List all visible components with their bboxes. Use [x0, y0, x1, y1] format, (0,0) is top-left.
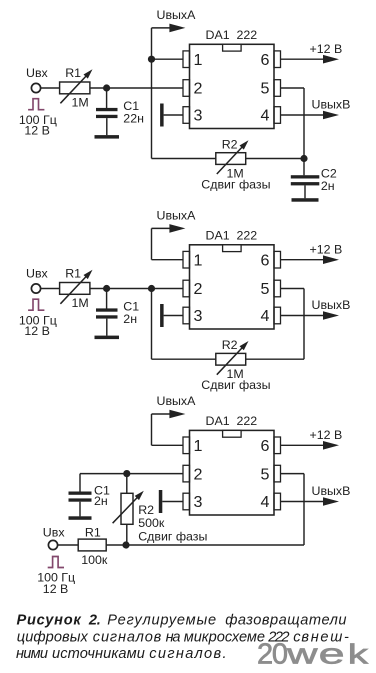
- input terminal circle (circuit 1): [31, 83, 40, 92]
- wire R2 row left segment (circuit 1): [152, 158, 216, 160]
- label +12 V (circuit 2): [310, 242, 343, 256]
- U2 pin 3 box: [183, 307, 190, 324]
- svg-text:+12 В: +12 В: [310, 242, 343, 256]
- wire pin 4 to UvyxB arrow (circuit 3): [281, 497, 340, 506]
- label 12 V (circuit 2): [24, 324, 50, 338]
- svg-text:сигналов.: сигналов.: [149, 646, 226, 662]
- resistor R2 designator (circuit 1): [222, 137, 238, 151]
- label Sdvig fazy (circuit 2): [201, 378, 270, 392]
- ground under C1 (circuit 3): [69, 516, 92, 520]
- resistor R2 variable arrow (circuit 3): [113, 491, 144, 523]
- svg-text:w: w: [286, 638, 319, 670]
- U1 pin 3 number: [194, 107, 203, 125]
- svg-text:2н: 2н: [94, 494, 108, 508]
- label UvyxB (circuit 1): [312, 98, 351, 112]
- op-amp U1 label DA1 222: [206, 28, 258, 42]
- svg-text:Uвх: Uвх: [26, 267, 49, 281]
- wire pin 6 to +12V arrow (circuit 3): [281, 441, 340, 450]
- capacitor C2 designator (circuit 1): [321, 167, 337, 181]
- resistor R1 value 1M (circuit 1): [72, 96, 89, 110]
- U3 pin 5 box: [274, 465, 281, 482]
- U1 pin 4 box: [274, 107, 281, 124]
- junction node R2/C2/pin5 (circuit 1): [300, 155, 307, 162]
- resistor R1 box (circuit 3): [78, 539, 106, 551]
- label 100 Hz (circuit 3): [37, 571, 75, 585]
- wire UvyxA vertical down to pin1 node (circuit 1): [151, 28, 153, 59]
- input terminal Uvx label (circuit 1): [26, 66, 49, 80]
- U3 pin 2 box: [183, 465, 190, 482]
- wire R1 to pin 2 (circuit 2): [90, 288, 183, 290]
- caption line 3 word istochnikami: [52, 646, 145, 662]
- U1 pin 6 box: [274, 51, 281, 68]
- svg-text:R1: R1: [85, 526, 101, 540]
- svg-text:5: 5: [261, 465, 270, 483]
- input terminal circle (circuit 3): [48, 540, 57, 549]
- svg-text:R1: R1: [65, 267, 81, 281]
- ground under C1 (circuit 2): [95, 336, 120, 340]
- wire pin5 vertical down (circuit 1): [303, 88, 305, 159]
- resistor R2 value 1M (circuit 1): [227, 166, 244, 180]
- svg-text:100к: 100к: [81, 553, 108, 567]
- U3 pin 4 box: [274, 493, 281, 510]
- input terminal Uvx label (circuit 2): [26, 267, 49, 281]
- watermark glyph e: [319, 638, 345, 670]
- wire corner down to C1 (circuit 3): [79, 474, 81, 492]
- svg-text:2: 2: [194, 80, 203, 98]
- svg-text:6: 6: [261, 437, 270, 455]
- capacitor C1 value 2n (circuit 3): [94, 494, 108, 508]
- capacitor C1 plates (circuit 3): [69, 492, 92, 502]
- resistor R2 bottom lead (circuit 3): [126, 524, 128, 545]
- svg-text:Сдвиг фазы: Сдвиг фазы: [138, 530, 207, 544]
- svg-text:UвыхA: UвыхA: [157, 8, 197, 22]
- U2 pin 2 number: [194, 280, 203, 298]
- U1 pin 5 number: [261, 80, 270, 98]
- resistor R1 designator (circuit 1): [65, 66, 81, 80]
- resistor R2 box (circuit 3): [121, 493, 133, 524]
- wire R1 to pin 2 (circuit 1): [90, 87, 183, 89]
- wire pin5 vertical down (circuit 2): [303, 289, 305, 360]
- caption line 2 number 222: [267, 629, 289, 645]
- svg-text:e: e: [319, 638, 345, 670]
- svg-text:+12 В: +12 В: [310, 42, 343, 56]
- capacitor C1 designator (circuit 2): [123, 300, 139, 314]
- U1 pin 2 number: [194, 80, 203, 98]
- capacitor C1 lead from node (circuit 1): [106, 88, 108, 108]
- watermark glyph k: [348, 638, 369, 669]
- svg-text:UвыхB: UвыхB: [312, 98, 351, 112]
- svg-text:микросхеме: микросхеме: [184, 629, 265, 645]
- svg-text:UвыхB: UвыхB: [312, 298, 351, 312]
- wire node to pin 1 (circuit 1): [152, 58, 184, 60]
- svg-text:2н: 2н: [123, 312, 137, 326]
- U3 pin 3 box: [183, 493, 190, 510]
- output UvyxA arrow (circuit 2): [152, 224, 186, 233]
- caption line 3 word nimi: [16, 646, 48, 662]
- svg-text:2: 2: [194, 280, 203, 298]
- wire input to R1 (circuit 2): [40, 288, 60, 290]
- svg-text:+12 В: +12 В: [310, 428, 343, 442]
- svg-text:на: на: [166, 629, 181, 645]
- svg-text:2: 2: [194, 465, 203, 483]
- wire C1 to ground (circuit 2): [106, 319, 108, 336]
- output UvyxA arrow (circuit 1): [152, 24, 186, 33]
- svg-text:2.: 2.: [88, 612, 101, 628]
- U2 pin 1 box: [183, 251, 190, 268]
- svg-text:5: 5: [261, 280, 270, 298]
- svg-text:6: 6: [261, 51, 270, 69]
- label 12 V (circuit 3): [43, 582, 69, 596]
- op-amp U2 label DA1 222: [206, 229, 258, 243]
- wire ground to pin 3 (circuit 2): [164, 315, 183, 317]
- wire C1 to ground (circuit 1): [106, 118, 108, 135]
- resistor R2 box (circuit 2): [216, 353, 246, 365]
- resistor R1 value 1M (circuit 2): [72, 296, 89, 310]
- svg-text:1: 1: [194, 51, 203, 69]
- svg-text:12 В: 12 В: [24, 324, 50, 338]
- U2 pin 3 number: [194, 307, 203, 325]
- output UvyxA arrow (circuit 3): [152, 410, 186, 419]
- signal source pulse symbol (circuit 2): [28, 299, 44, 310]
- ground under C2 (circuit 1): [292, 198, 319, 202]
- wire bottom row to pin5 net (circuit 3): [126, 544, 304, 546]
- svg-text:6: 6: [261, 251, 270, 269]
- capacitor C2 value 2n (circuit 1): [321, 179, 335, 193]
- ground bar at pin 3 (circuit 3): [159, 490, 163, 513]
- U3 pin 2 number: [194, 465, 203, 483]
- capacitor C2 plates (circuit 1): [291, 175, 320, 185]
- op-amp U2 DA1 222 body: [190, 245, 275, 329]
- wire C2 to ground (circuit 1): [304, 185, 306, 198]
- U2 pin 4 number: [261, 307, 270, 325]
- wire UvyxA vertical down to pin 1 (circuit 3): [151, 414, 153, 445]
- svg-text:Сдвиг фазы: Сдвиг фазы: [201, 177, 270, 191]
- U1 pin 1 box: [183, 51, 190, 68]
- svg-text:R1: R1: [65, 66, 81, 80]
- caption line 1 word Reguliruemye: [107, 612, 216, 628]
- label Sdvig fazy (circuit 3): [138, 530, 207, 544]
- svg-text:2н: 2н: [321, 179, 335, 193]
- svg-text:1: 1: [194, 437, 203, 455]
- op-amp U3 DA1 222 body: [190, 430, 275, 515]
- svg-text:UвыхA: UвыхA: [157, 394, 197, 408]
- svg-text:1M: 1M: [72, 96, 89, 110]
- U3 pin 5 number: [261, 465, 270, 483]
- caption line 1 word Risunok (bold italic): [17, 612, 82, 628]
- wire R2 to right node (circuit 1): [246, 158, 304, 160]
- svg-text:DA1 222: DA1 222: [206, 28, 258, 42]
- junction node pin1/UvyxA (circuit 1): [148, 56, 155, 63]
- svg-text:1: 1: [194, 251, 203, 269]
- svg-text:2: 2: [257, 638, 273, 670]
- label UvyxB (circuit 3): [312, 484, 351, 498]
- svg-text:DA1 222: DA1 222: [206, 414, 258, 428]
- svg-text:1M: 1M: [72, 296, 89, 310]
- wire pin5 vertical down (circuit 3): [303, 474, 305, 545]
- wire input to R1 (circuit 3): [57, 544, 78, 546]
- svg-text:DA1 222: DA1 222: [206, 229, 258, 243]
- ground under C1 (circuit 1): [95, 135, 120, 139]
- resistor R1 box (circuit 2): [60, 283, 90, 295]
- resistor R1 variable arrow (circuit 1): [60, 69, 92, 103]
- input terminal Uvx label (circuit 3): [43, 526, 66, 540]
- capacitor C1 plates (circuit 2): [96, 308, 118, 318]
- capacitor C1 plates (circuit 1): [96, 108, 118, 118]
- svg-text:R2: R2: [138, 503, 154, 517]
- op-amp U1 DA1 222 body: [190, 44, 275, 128]
- svg-text:UвыхB: UвыхB: [312, 484, 351, 498]
- label 100 Hz (circuit 2): [19, 314, 57, 328]
- svg-text:Рисунок: Рисунок: [17, 612, 82, 628]
- junction node R1/R2/pin5 (circuit 3): [122, 541, 129, 548]
- resistor R1 designator (circuit 2): [65, 267, 81, 281]
- wire corner to pin 1 (circuit 3): [152, 444, 184, 446]
- label UvyxB (circuit 2): [312, 298, 351, 312]
- caption line 1 word fazovrashchateli: [225, 612, 346, 628]
- wire vertical net pin1-node down to R2 row (circuit 1): [151, 59, 153, 158]
- svg-text:Сдвиг фазы: Сдвиг фазы: [201, 378, 270, 392]
- U2 pin 6 number: [261, 251, 270, 269]
- wire R1 to node (circuit 3): [106, 544, 126, 546]
- caption line 2 word vnesh-: [301, 629, 349, 645]
- input terminal circle (circuit 2): [31, 284, 40, 293]
- svg-text:3: 3: [194, 107, 203, 125]
- wire ground to pin 3 (circuit 1): [164, 114, 183, 116]
- svg-text:цифровых: цифровых: [17, 629, 89, 645]
- ground bar at pin 3 (circuit 2): [160, 304, 164, 327]
- watermark glyph w: [286, 638, 319, 670]
- signal source pulse symbol (circuit 3): [48, 557, 64, 568]
- svg-text:12 В: 12 В: [24, 123, 50, 137]
- svg-text:500к: 500к: [138, 516, 165, 530]
- resistor R1 box (circuit 1): [60, 82, 90, 94]
- caption line 1 figure number 2. (bold italic): [88, 612, 101, 628]
- junction node R1/C1 (circuit 1): [103, 84, 110, 91]
- U2 pin 5 box: [274, 280, 281, 297]
- signal source pulse symbol (circuit 1): [28, 99, 44, 110]
- label +12 V (circuit 3): [310, 428, 343, 442]
- U3 pin 6 box: [274, 437, 281, 454]
- wire pin 6 to +12V arrow (circuit 1): [281, 55, 340, 64]
- op-amp U1 orientation notch: [223, 44, 242, 51]
- capacitor C1 lead (circuit 2): [106, 289, 108, 309]
- U1 pin 2 box: [183, 80, 190, 97]
- svg-text:3: 3: [194, 493, 203, 511]
- wire C1 to ground (circuit 3): [79, 502, 81, 517]
- wire R2 to pin5 net (circuit 2): [246, 358, 304, 360]
- wire pin 5 right (circuit 3): [281, 473, 305, 475]
- node UvyxA label (circuit 2): [157, 208, 197, 222]
- ground bar at pin 3 (circuit 1): [160, 104, 164, 127]
- U1 pin 6 number: [261, 51, 270, 69]
- caption line 2 word mikroskheme: [184, 629, 265, 645]
- wire pin 2 left segment (circuit 3): [80, 473, 183, 475]
- wire pin 4 to UvyxB arrow (circuit 2): [281, 311, 340, 320]
- U1 pin 5 box: [274, 80, 281, 97]
- U2 pin 6 box: [274, 251, 281, 268]
- U1 pin 4 number: [261, 107, 270, 125]
- wire pin 6 to +12V arrow (circuit 2): [281, 255, 340, 264]
- caption line 2 word na: [166, 629, 181, 645]
- svg-text:4: 4: [261, 307, 270, 325]
- svg-text:22н: 22н: [123, 112, 144, 126]
- caption line 3 word signalov.: [149, 646, 226, 662]
- resistor R2 box (circuit 1): [216, 153, 246, 165]
- svg-text:0: 0: [272, 638, 288, 670]
- svg-text:фазовращатели: фазовращатели: [225, 612, 346, 628]
- watermark glyph 0: [272, 638, 288, 670]
- label +12 V (circuit 1): [310, 42, 343, 56]
- wire pin 5 right (circuit 1): [281, 87, 305, 89]
- node UvyxA label (circuit 3): [157, 394, 197, 408]
- U3 pin 1 number: [194, 437, 203, 455]
- caption line 2 word signalov: [93, 629, 162, 645]
- junction node R1/C1 (circuit 2): [103, 285, 110, 292]
- wire input to R1 (circuit 1): [40, 87, 60, 89]
- svg-text:Uвх: Uвх: [26, 66, 49, 80]
- resistor R2 variable arrow (circuit 2): [217, 341, 249, 375]
- svg-text:R2: R2: [222, 338, 238, 352]
- svg-text:R2: R2: [222, 137, 238, 151]
- U2 pin 5 number: [261, 280, 270, 298]
- U2 pin 4 box: [274, 307, 281, 324]
- wire R2 row left segment (circuit 2): [152, 358, 216, 360]
- U2 pin 2 box: [183, 280, 190, 297]
- wire pin 5 right (circuit 2): [281, 288, 305, 290]
- svg-text:3: 3: [194, 307, 203, 325]
- junction node pin2/R2 (circuit 2): [148, 285, 155, 292]
- resistor R2 value 500k (circuit 3): [138, 516, 165, 530]
- wire pin 4 to UvyxB arrow (circuit 1): [281, 111, 340, 120]
- resistor R2 variable arrow (circuit 1): [217, 140, 249, 174]
- svg-text:k: k: [348, 638, 369, 669]
- svg-text:12 В: 12 В: [43, 582, 69, 596]
- op-amp U2 orientation notch: [223, 245, 242, 252]
- caption line 2 word s: [293, 629, 301, 645]
- resistor R2 designator (circuit 2): [222, 338, 238, 352]
- wire ground to pin 3 (circuit 3): [162, 501, 183, 503]
- wire UvyxA vertical down to pin 1 (circuit 2): [151, 228, 153, 259]
- junction node pin2/R2/C1 (circuit 3): [123, 470, 130, 477]
- svg-text:ними: ними: [16, 646, 48, 662]
- resistor R2 value 1M (circuit 2): [227, 367, 244, 381]
- wire vertical pin2-node down to R2 (circuit 2): [151, 289, 153, 360]
- svg-text:4: 4: [261, 493, 270, 511]
- U3 pin 6 number: [261, 437, 270, 455]
- op-amp U3 label DA1 222: [206, 414, 258, 428]
- watermark glyph 2: [257, 638, 273, 670]
- node UvyxA label (circuit 1): [157, 8, 197, 22]
- svg-text:сигналов: сигналов: [93, 629, 162, 645]
- U3 pin 3 number: [194, 493, 203, 511]
- capacitor C1 designator (circuit 3): [94, 483, 110, 497]
- wire corner to pin 1 (circuit 2): [152, 259, 184, 261]
- resistor R2 designator (circuit 3): [138, 503, 154, 517]
- op-amp U3 orientation notch: [223, 430, 242, 437]
- capacitor C2 lead (circuit 1): [303, 159, 305, 176]
- svg-text:4: 4: [261, 107, 270, 125]
- U1 pin 1 number: [194, 51, 203, 69]
- svg-text:5: 5: [261, 80, 270, 98]
- resistor R2 top lead (circuit 3): [126, 474, 128, 494]
- caption line 2 word cifrovyh: [17, 629, 89, 645]
- resistor R1 value 100k (circuit 3): [81, 553, 108, 567]
- capacitor C1 value 2n (circuit 2): [123, 312, 137, 326]
- capacitor C1 designator (circuit 1): [123, 99, 139, 113]
- svg-text:Uвх: Uвх: [43, 526, 66, 540]
- svg-text:источниками: источниками: [52, 646, 145, 662]
- label 12 V (circuit 1): [24, 123, 50, 137]
- capacitor C1 value 22n (circuit 1): [123, 112, 144, 126]
- resistor R1 designator (circuit 3): [85, 526, 101, 540]
- label 100 Hz (circuit 1): [19, 113, 57, 127]
- U3 pin 4 number: [261, 493, 270, 511]
- svg-text:Регулируемые: Регулируемые: [107, 612, 216, 628]
- U3 pin 1 box: [183, 437, 190, 454]
- label Sdvig fazy (circuit 1): [201, 177, 270, 191]
- U1 pin 3 box: [183, 107, 190, 124]
- svg-text:UвыхA: UвыхA: [157, 208, 197, 222]
- resistor R1 variable arrow (circuit 2): [60, 270, 92, 304]
- U2 pin 1 number: [194, 251, 203, 269]
